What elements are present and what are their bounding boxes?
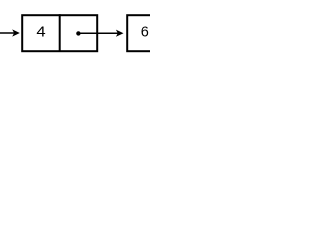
node 1 divider [59,14,61,51]
node 2 box (clipped at right edge) [127,15,202,51]
svg-text:4: 4 [36,25,45,41]
svg-text:6: 6 [141,25,149,41]
pointer dot [76,31,80,35]
pointer arrow to node 2 [78,30,123,37]
node 1 box [22,15,97,51]
entry arrow (head pointer) [0,29,20,36]
